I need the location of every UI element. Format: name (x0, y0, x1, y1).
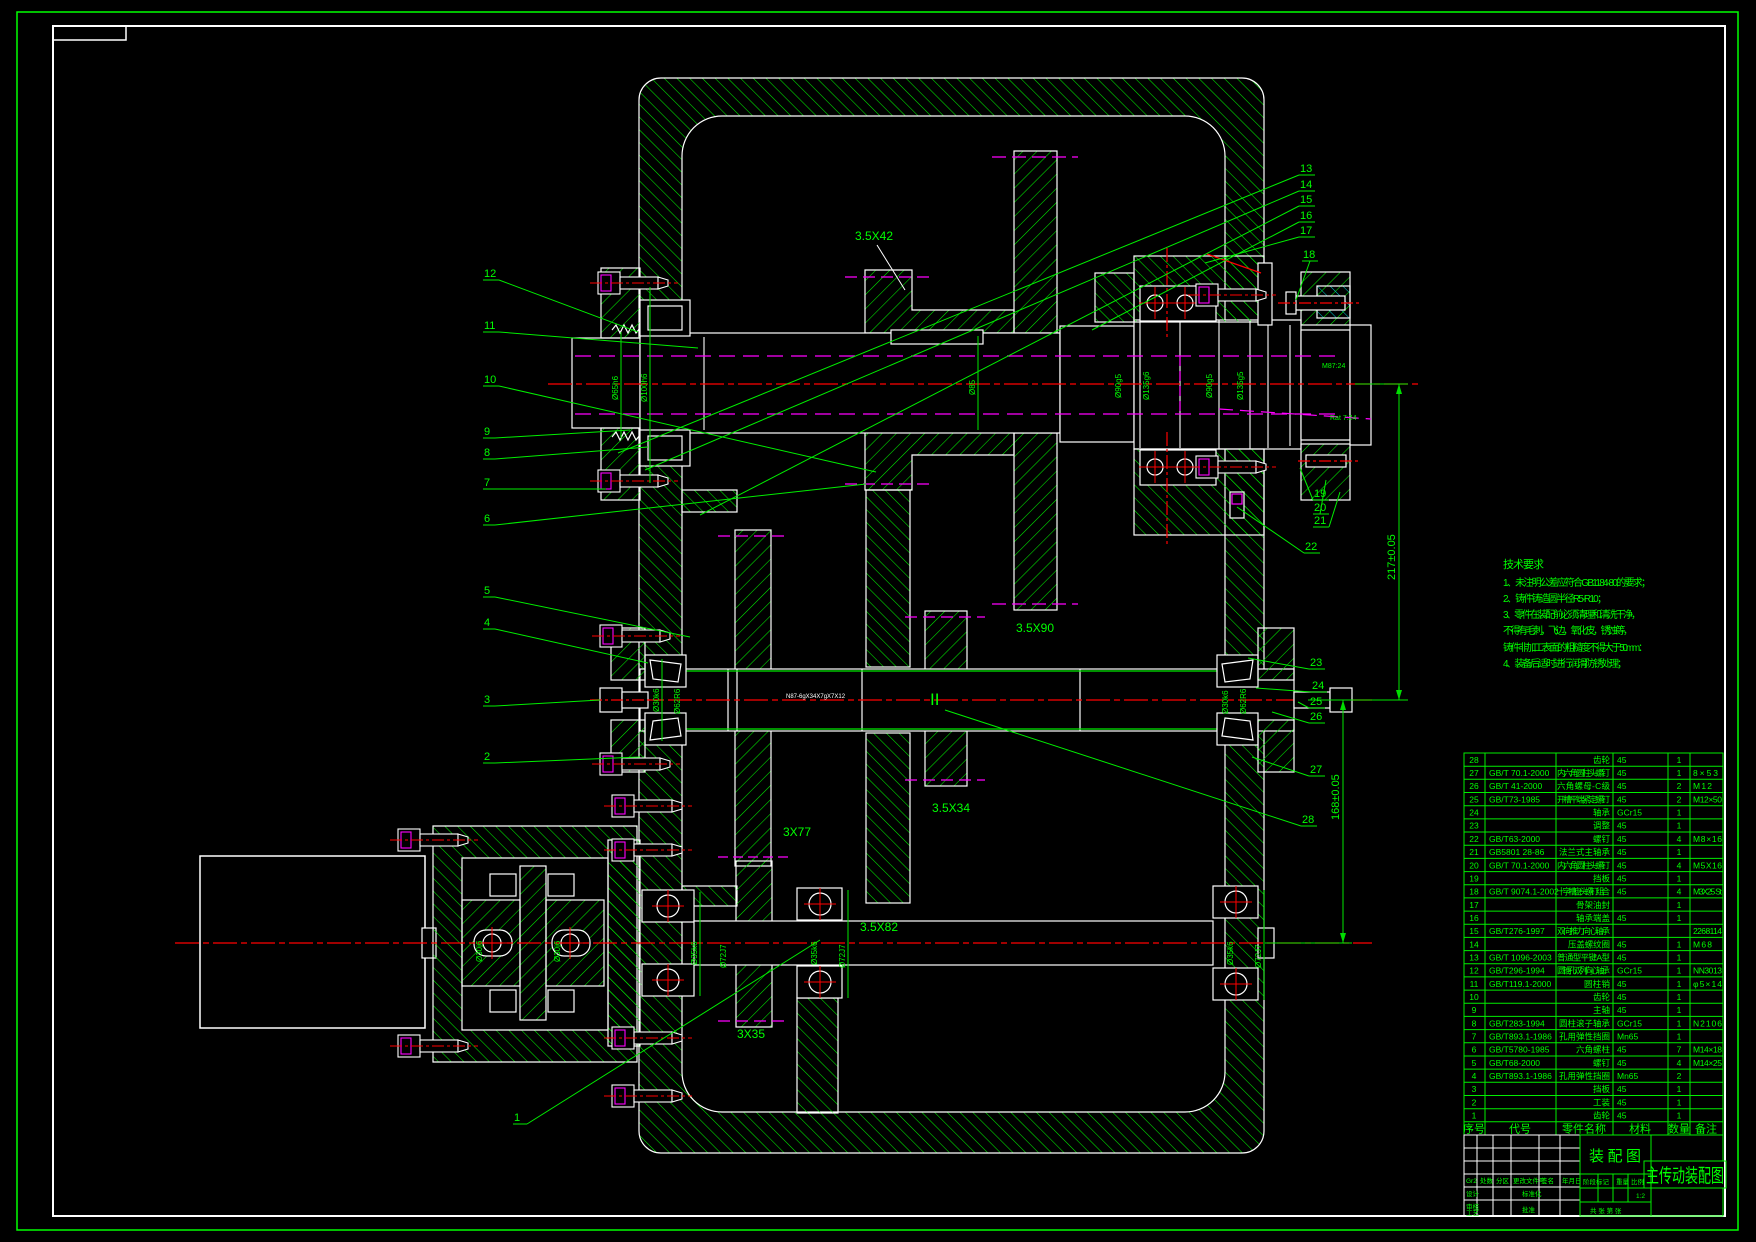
svg-text:Ø72J7: Ø72J7 (719, 944, 728, 968)
svg-text:内六角圆柱头螺钉: 内六角圆柱头螺钉 (1557, 768, 1610, 778)
svg-text:3.5X34: 3.5X34 (932, 801, 970, 815)
svg-text:Ø100h6: Ø100h6 (640, 373, 649, 402)
leader 13 (618, 163, 1315, 453)
svg-text:45: 45 (1617, 992, 1627, 1002)
svg-text:M87:24: M87:24 (1322, 363, 1345, 370)
svg-text:GB/T68-2000: GB/T68-2000 (1489, 1058, 1540, 1068)
coupling hub left (462, 900, 520, 986)
svg-text:轴承: 轴承 (1593, 808, 1610, 818)
svg-text:4、装备后适时进行润滑防锈处理；: 4、装备后适时进行润滑防锈处理； (1503, 657, 1627, 670)
taper roller (1222, 660, 1253, 682)
taper roller (650, 660, 681, 682)
leader 10 (483, 374, 876, 472)
leader 27 (1252, 757, 1325, 776)
svg-text:45: 45 (1617, 1058, 1627, 1068)
svg-text:Ø72J7: Ø72J7 (1254, 944, 1263, 968)
svg-text:N2106: N2106 (1693, 1018, 1722, 1028)
svg-text:技术要求: 技术要求 (1503, 558, 1544, 571)
coupling bolt slot right (552, 930, 590, 956)
leader 20 (1313, 480, 1329, 514)
svg-text:Rat 7:24: Rat 7:24 (1330, 415, 1357, 422)
spindle shaft left stub (572, 338, 640, 428)
svg-text:1: 1 (1677, 821, 1682, 831)
leader 18 (1296, 249, 1318, 300)
svg-text:序号: 序号 (1463, 1121, 1485, 1135)
bolt input flange low (604, 1085, 692, 1107)
step line (1079, 669, 1081, 731)
ball (809, 971, 831, 993)
svg-text:17: 17 (1469, 900, 1479, 910)
svg-text:GB/T 70.1-2000: GB/T 70.1-2000 (1489, 860, 1550, 870)
svg-text:3、零件在装配前必须清理和清洗干净，: 3、零件在装配前必须清理和清洗干净， (1503, 608, 1641, 621)
svg-text:1: 1 (1677, 1032, 1682, 1042)
svg-text:15: 15 (1300, 194, 1312, 206)
svg-text:GB/T5780-1985: GB/T5780-1985 (1489, 1045, 1550, 1055)
svg-text:23: 23 (1310, 657, 1322, 669)
svg-text:M8×16: M8×16 (1693, 834, 1722, 844)
ball (1147, 459, 1163, 475)
svg-text:II: II (930, 690, 939, 709)
end nut (1330, 688, 1352, 712)
svg-text:Ø30j6: Ø30j6 (475, 940, 484, 962)
svg-text:零件名称: 零件名称 (1562, 1121, 1606, 1135)
svg-text:45: 45 (1617, 768, 1627, 778)
svg-text:45: 45 (1617, 873, 1627, 883)
svg-text:M3X25 St: M3X25 St (1693, 887, 1723, 897)
gear pitch dash bottom (992, 603, 1078, 605)
spindle step (1060, 326, 1134, 442)
leader 7 (483, 477, 606, 489)
svg-text:挡板: 挡板 (1593, 873, 1610, 883)
gear pitch dashes (718, 535, 790, 537)
svg-text:45: 45 (1617, 1045, 1627, 1055)
svg-text:Mn65: Mn65 (1617, 1071, 1639, 1081)
svg-text:20: 20 (1469, 860, 1479, 870)
leader 21 (1313, 492, 1340, 527)
vertical hidden dash (1179, 356, 1181, 414)
svg-text:10: 10 (484, 374, 496, 386)
svg-text:8: 8 (484, 447, 490, 459)
svg-text:28: 28 (1469, 755, 1479, 765)
svg-text:齿轮: 齿轮 (1593, 1111, 1610, 1121)
svg-text:法兰式主轴承: 法兰式主轴承 (1559, 847, 1610, 857)
svg-text:处数: 处数 (1480, 1176, 1494, 1185)
svg-text:45: 45 (1617, 1097, 1627, 1107)
bearing centerline red vertical (1166, 248, 1168, 340)
shaft II green dim line top (680, 670, 1218, 672)
leader 23 (1248, 657, 1325, 669)
input mid bearing top (797, 888, 842, 920)
svg-text:24: 24 (1312, 680, 1324, 692)
ball (1225, 973, 1247, 995)
spindle gear wheel upper half (1014, 151, 1057, 333)
svg-text:45: 45 (1617, 979, 1627, 989)
shaft II left taper bearing lower (645, 713, 686, 745)
step line (861, 669, 863, 731)
taper roller (1222, 718, 1253, 740)
svg-text:GB/T893.1-1986: GB/T893.1-1986 (1489, 1071, 1552, 1081)
svg-text:M12: M12 (1693, 781, 1712, 791)
svg-text:1: 1 (1677, 1111, 1682, 1121)
svg-text:2: 2 (1472, 1097, 1477, 1107)
svg-text:28: 28 (1302, 814, 1314, 826)
svg-text:压盖螺纹圈: 压盖螺纹圈 (1568, 939, 1610, 949)
svg-text:Ø90g5: Ø90g5 (1114, 373, 1123, 398)
svg-text:签名: 签名 (1541, 1176, 1554, 1185)
red diagonal centerline mark (1207, 254, 1261, 273)
coupling top bolt (490, 874, 516, 896)
spindle big section (1134, 320, 1301, 449)
pitch dash small gear (845, 276, 935, 278)
svg-text:GCr15: GCr15 (1617, 808, 1642, 818)
spindle bore hidden line lower (575, 413, 1340, 415)
svg-text:批准: 批准 (1522, 1205, 1536, 1214)
svg-text:45: 45 (1617, 821, 1627, 831)
svg-text:1: 1 (1677, 755, 1682, 765)
svg-text:GB/T73-1985: GB/T73-1985 (1489, 794, 1540, 804)
bearing race upper (1140, 286, 1216, 321)
svg-text:GB/T63-2000: GB/T63-2000 (1489, 834, 1540, 844)
svg-text:GB/T 41-2000: GB/T 41-2000 (1489, 781, 1543, 791)
input shaft right stub (1258, 928, 1274, 958)
bolt bell flange upper (390, 829, 478, 851)
coupling bolt circle (561, 934, 579, 952)
svg-text:Ø30k6: Ø30k6 (1221, 690, 1230, 714)
spindle front bearing lower (640, 430, 690, 466)
housing web rib upper (between chambers) (866, 490, 910, 667)
bolt right bearing cap lower (1188, 456, 1276, 478)
svg-text:材料: 材料 (1629, 1121, 1651, 1135)
spindle right bearing hub boss (1095, 273, 1134, 322)
shaft II gear (3.5X34) (925, 611, 967, 786)
sliding key bar (1258, 263, 1272, 325)
spindle small gear upper (865, 270, 1014, 333)
svg-text:Ø35k6: Ø35k6 (810, 941, 819, 965)
svg-text:Ø62R6: Ø62R6 (673, 688, 682, 714)
svg-text:21: 21 (1314, 515, 1326, 527)
leader 12 (483, 268, 638, 332)
ball (809, 893, 831, 915)
shaft II right bearing lower (1217, 713, 1258, 745)
svg-text:GB/T 9074.1-2002: GB/T 9074.1-2002 (1489, 887, 1559, 897)
dia dim input bearing (699, 892, 701, 996)
svg-text:Gr2: Gr2 (1466, 1178, 1477, 1185)
svg-text:217±0.05: 217±0.05 (1386, 534, 1398, 580)
BOM parts list table (1464, 753, 1723, 1135)
svg-text:Ø72J7: Ø72J7 (838, 944, 847, 968)
shaft II left cover lower (611, 720, 645, 772)
bolt bell flange lower (390, 1035, 478, 1057)
bell housing ring (433, 826, 637, 1062)
shaft II body (640, 669, 1294, 731)
svg-text:12: 12 (1469, 966, 1479, 976)
svg-text:1: 1 (1677, 966, 1682, 976)
svg-text:6: 6 (484, 513, 490, 525)
draw bolt top right (1294, 296, 1345, 310)
cap screw under bearing (1230, 492, 1244, 518)
bolt input flange upper (604, 1027, 692, 1049)
svg-text:Ø35k6: Ø35k6 (1226, 941, 1235, 965)
bearing centerline red vertical lower (1166, 432, 1168, 545)
bolt axis red (1298, 460, 1360, 462)
adjusting hex screw (600, 688, 622, 712)
dim 217 extension top (1355, 383, 1408, 385)
shaft II left cover upper (611, 628, 645, 680)
svg-text:2: 2 (1677, 781, 1682, 791)
svg-text:数量: 数量 (1668, 1122, 1690, 1135)
svg-text:Ø90g5: Ø90g5 (1205, 373, 1214, 398)
shaft II big gear (735, 530, 771, 866)
hex screw shank (622, 692, 648, 708)
svg-text:GCr15: GCr15 (1617, 966, 1642, 976)
svg-text:GB/T283-1994: GB/T283-1994 (1489, 1018, 1545, 1028)
svg-text:φ5×14: φ5×14 (1693, 979, 1722, 989)
svg-text:1: 1 (1677, 953, 1682, 963)
coupling hub right (546, 900, 604, 986)
coupling top bolt2 (548, 874, 574, 896)
svg-text:阶段标记: 阶段标记 (1583, 1177, 1610, 1186)
dia dim mid bearing (847, 890, 849, 998)
svg-text:8: 8 (1472, 1018, 1477, 1028)
svg-text:25: 25 (1310, 696, 1322, 708)
svg-text:1: 1 (1677, 1018, 1682, 1028)
svg-text:Ø135g5: Ø135g5 (1236, 371, 1245, 400)
svg-text:4: 4 (1472, 1071, 1477, 1081)
border title tab top-left (53, 26, 126, 40)
magenta head hatch (1232, 494, 1242, 504)
svg-text:1: 1 (1677, 873, 1682, 883)
leader 4 (483, 617, 648, 663)
svg-text:10: 10 (1469, 992, 1479, 1002)
svg-text:2: 2 (1677, 1071, 1682, 1081)
svg-text:1: 1 (1677, 939, 1682, 949)
synchro ring cyan (1317, 286, 1350, 318)
svg-text:45: 45 (1617, 755, 1627, 765)
svg-text:1: 1 (1677, 1084, 1682, 1094)
rollers lower (648, 436, 682, 460)
svg-text:45: 45 (1617, 847, 1627, 857)
gear pitch dash (718, 1020, 790, 1022)
svg-text:Ø30j6: Ø30j6 (553, 940, 562, 962)
housing shelf boss lower left (682, 886, 737, 906)
svg-text:GCr15: GCr15 (1617, 1018, 1642, 1028)
white leader for 3.5X42 (877, 245, 905, 290)
dia dims shaft II left (661, 659, 663, 741)
input shaft (694, 921, 1213, 965)
bolt housing wall low (604, 839, 692, 861)
leader 16 (1092, 210, 1315, 330)
spindle front bearing upper (640, 300, 690, 336)
svg-text:4: 4 (1677, 860, 1682, 870)
coupling bolt circle (483, 934, 501, 952)
bolt axis red (1278, 302, 1362, 304)
svg-text:GB/T 70.1-2000: GB/T 70.1-2000 (1489, 768, 1550, 778)
leader 8 (483, 447, 648, 459)
ball (1177, 459, 1193, 475)
svg-text:3.5X42: 3.5X42 (855, 229, 893, 243)
svg-text:45: 45 (1617, 953, 1627, 963)
leader 3 (483, 694, 600, 706)
svg-text:45: 45 (1617, 794, 1627, 804)
svg-text:15: 15 (1469, 926, 1479, 936)
locknut spring lower (612, 432, 640, 440)
bolt shaft II cover lower (592, 753, 680, 775)
svg-text:2268114: 2268114 (1693, 926, 1722, 936)
svg-text:M68: M68 (1693, 939, 1712, 949)
svg-text:齿轮: 齿轮 (1593, 755, 1610, 765)
svg-text:备注: 备注 (1695, 1121, 1717, 1135)
shaft II centerline (592, 699, 1372, 701)
leader 28 (945, 710, 1317, 826)
svg-text:GB/T893.1-1986: GB/T893.1-1986 (1489, 1032, 1552, 1042)
svg-text:孔用弹性挡圈: 孔用弹性挡圈 (1559, 1071, 1610, 1081)
svg-text:2: 2 (1677, 794, 1682, 804)
svg-text:14: 14 (1469, 939, 1479, 949)
input centerline (175, 942, 1372, 944)
svg-text:六角螺母-C级: 六角螺母-C级 (1557, 781, 1610, 791)
svg-text:3X77: 3X77 (783, 825, 811, 839)
svg-text:M14×25: M14×25 (1693, 1058, 1722, 1068)
ball (657, 969, 679, 991)
svg-text:1:2: 1:2 (1636, 1193, 1645, 1200)
bearing ball crosshairs red (476, 287, 1252, 1000)
svg-text:GB5801 28-86: GB5801 28-86 (1489, 847, 1545, 857)
pitch dash small gear lower (845, 483, 935, 485)
svg-text:5: 5 (484, 585, 490, 597)
svg-text:GB/T296-1994: GB/T296-1994 (1489, 966, 1545, 976)
shaft II right cover lower (1258, 720, 1294, 772)
dim 168 line (1342, 700, 1344, 943)
leader 1 (513, 940, 820, 1124)
shaft II collar lines (727, 669, 729, 731)
draw bolt head (1286, 292, 1296, 314)
svg-text:1: 1 (1677, 900, 1682, 910)
svg-text:45: 45 (1617, 1084, 1627, 1094)
dim 168 extension bottom (1265, 942, 1352, 944)
svg-text:22: 22 (1305, 541, 1317, 553)
input right bearing bottom (1213, 968, 1258, 1000)
svg-text:9: 9 (1472, 1005, 1477, 1015)
svg-text:NN3013: NN3013 (1693, 966, 1722, 976)
hex axis red (590, 699, 662, 701)
spindle small gear lower (865, 432, 1014, 490)
dim 217 line (1398, 384, 1400, 700)
svg-text:共 张 第 张: 共 张 第 张 (1590, 1206, 1622, 1215)
svg-text:主传动装配图: 主传动装配图 (1646, 1165, 1724, 1187)
input left bearing bottom (642, 964, 694, 996)
svg-text:45: 45 (1617, 1111, 1627, 1121)
svg-text:轴承端盖: 轴承端盖 (1576, 913, 1610, 923)
svg-text:26: 26 (1469, 781, 1479, 791)
spindle right bearing block upper (1134, 256, 1264, 322)
svg-text:GB/T 1096-2003: GB/T 1096-2003 (1489, 953, 1552, 963)
spindle gear wheel lower half (1014, 433, 1057, 610)
title block small labels (1466, 1176, 1645, 1217)
rollers upper (648, 306, 682, 330)
dim 217 extension bottom (1308, 699, 1408, 701)
svg-text:M5X16: M5X16 (1693, 860, 1722, 870)
end stud (1294, 692, 1330, 708)
svg-text:27: 27 (1310, 764, 1322, 776)
leader 26 (1272, 711, 1325, 723)
svg-text:Ø35k6: Ø35k6 (690, 941, 699, 965)
gear pitch dash top (992, 156, 1078, 158)
svg-text:16: 16 (1300, 210, 1312, 222)
svg-text:17: 17 (1300, 225, 1312, 237)
taper bore hidden lines right (1219, 409, 1371, 419)
svg-text:45: 45 (1617, 939, 1627, 949)
svg-text:GB/T276-1997: GB/T276-1997 (1489, 926, 1545, 936)
input shaft gear (736, 861, 772, 1027)
svg-text:Ø62R6: Ø62R6 (1239, 688, 1248, 714)
svg-text:不得有毛刺，飞边，氧化皮，锈蚀等，: 不得有毛刺，飞边，氧化皮，锈蚀等， (1503, 624, 1633, 637)
svg-text:分区: 分区 (1496, 1176, 1510, 1185)
svg-text:年月日: 年月日 (1562, 1176, 1582, 1185)
svg-text:工艺: 工艺 (1466, 1209, 1480, 1217)
leader 25 (1298, 696, 1325, 708)
svg-text:26: 26 (1310, 711, 1322, 723)
spindle front flange plate upper (601, 268, 640, 338)
leader 19 (1300, 468, 1329, 500)
spindle flange ring lower (1301, 444, 1350, 500)
input flange plate (608, 840, 640, 1046)
coupling center disc (520, 866, 546, 1020)
taper roller (650, 718, 681, 740)
svg-text:重量: 重量 (1616, 1178, 1630, 1186)
leader 15 (700, 194, 1315, 515)
svg-text:比例: 比例 (1631, 1177, 1644, 1186)
spindle step lines (704, 320, 1290, 449)
svg-text:Ø30k6: Ø30k6 (652, 688, 661, 712)
spindle right bearing block lower (1134, 449, 1264, 535)
housing web rib lower (866, 733, 910, 903)
svg-text:3.5X90: 3.5X90 (1016, 621, 1054, 635)
leader 14 (645, 179, 1315, 470)
bolt right bearing cap (1188, 284, 1276, 306)
leader 6 (483, 484, 866, 525)
svg-text:圆锥孔双列向心轴承: 圆锥孔双列向心轴承 (1557, 966, 1610, 976)
spindle front flange plate lower (601, 428, 640, 500)
svg-text:GB/T119.1-2000: GB/T119.1-2000 (1489, 979, 1551, 989)
bolt shaft II cover upper (592, 625, 680, 647)
svg-text:45: 45 (1617, 834, 1627, 844)
shaft II green dim line bottom (680, 728, 1218, 730)
svg-text:3X35: 3X35 (737, 1027, 765, 1041)
bolt spindle cover lower (590, 470, 678, 492)
svg-text:Mn65: Mn65 (1617, 1032, 1639, 1042)
coupling bolt slot left (474, 930, 512, 956)
shaft II left taper bearing upper (645, 655, 686, 687)
spindle shaft main body (640, 333, 1060, 433)
svg-text:挡板: 挡板 (1593, 1084, 1610, 1094)
svg-text:工装: 工装 (1593, 1097, 1610, 1107)
shaft II right cover upper (1258, 628, 1294, 680)
svg-text:19: 19 (1469, 873, 1479, 883)
coupling bottom bolt2 (548, 990, 574, 1012)
dia dim gear (977, 336, 979, 430)
leader 9 (483, 426, 630, 438)
svg-text:7: 7 (1677, 1045, 1682, 1055)
title block left grid (white) (1464, 1135, 1580, 1216)
housing shelf boss left (682, 490, 737, 512)
svg-text:骨架油封: 骨架油封 (1576, 900, 1610, 910)
svg-text:45: 45 (1617, 781, 1627, 791)
svg-text:14: 14 (1300, 179, 1312, 191)
leader 11 (483, 320, 698, 348)
svg-text:25: 25 (1469, 794, 1479, 804)
svg-text:螺钉: 螺钉 (1593, 1058, 1610, 1068)
svg-text:圆柱销: 圆柱销 (1584, 979, 1610, 989)
